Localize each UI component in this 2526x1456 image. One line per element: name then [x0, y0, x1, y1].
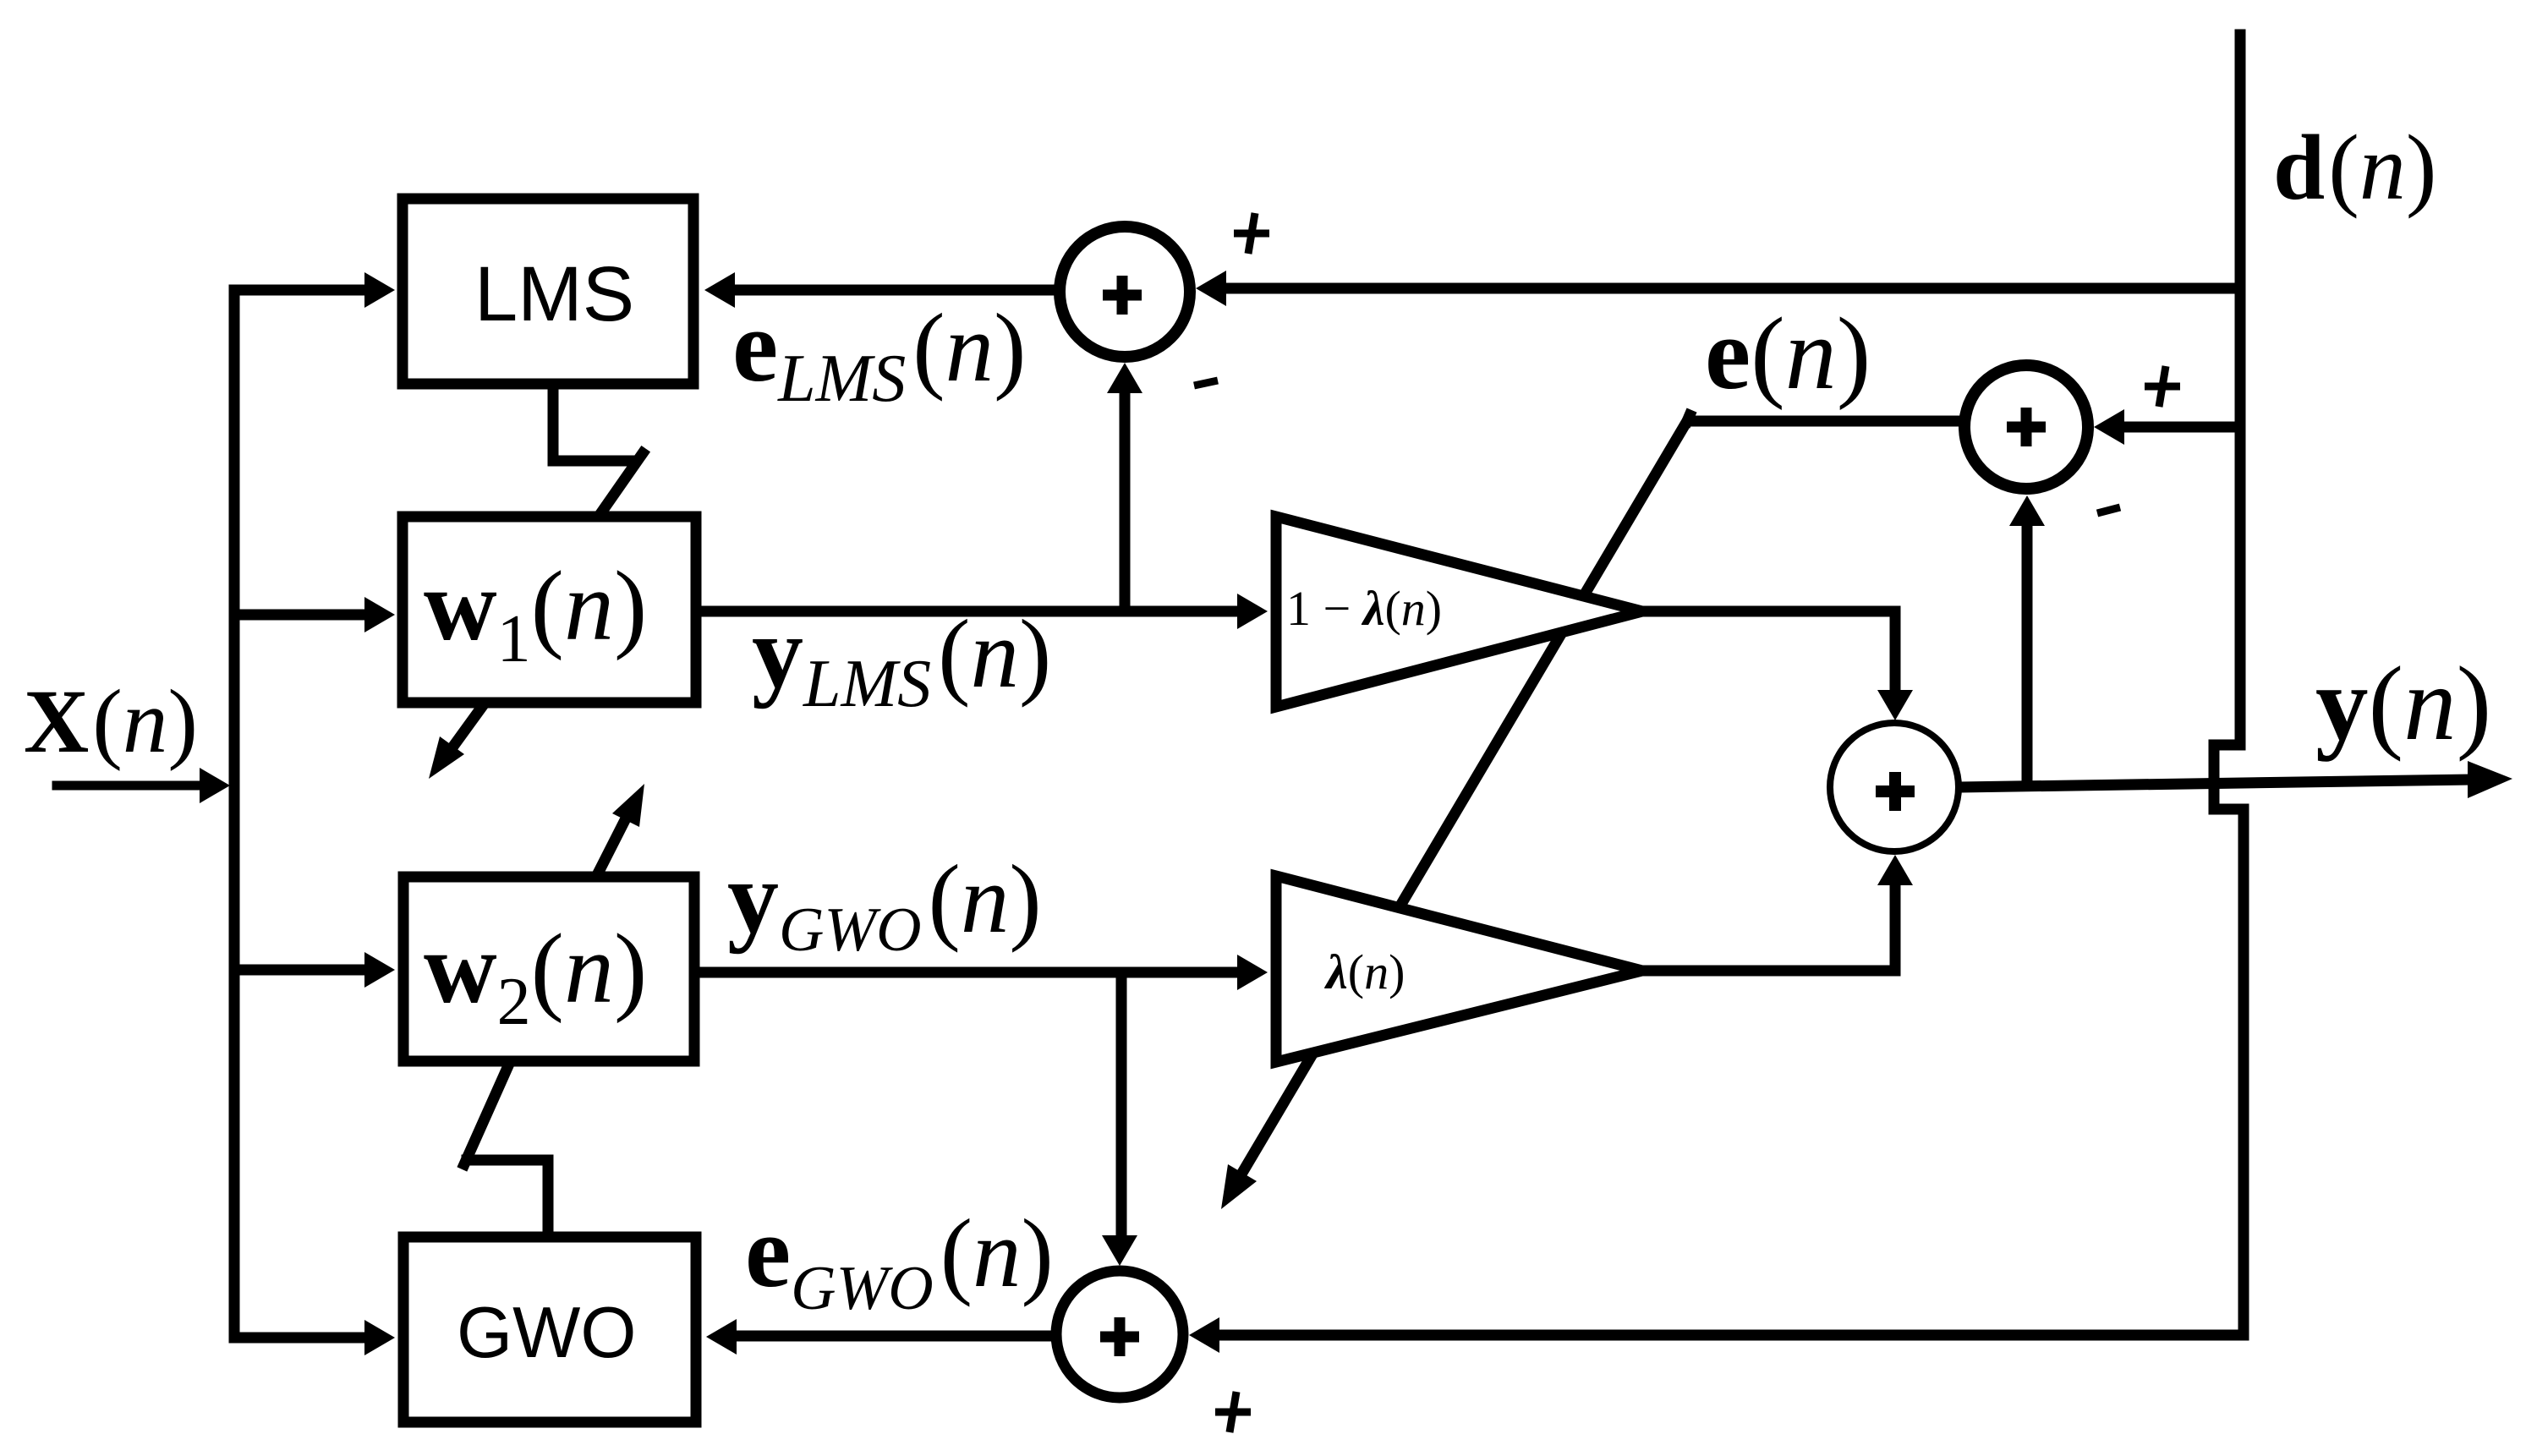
arrowhead into LMS box: [364, 272, 395, 308]
svg-text:1 − λ(n): 1 − λ(n): [1286, 581, 1442, 636]
wire LMS to w1 zigzag: [553, 384, 634, 461]
arrowhead y(n) up into S2: [2009, 495, 2045, 526]
svg-text:λ(n): λ(n): [1324, 944, 1405, 999]
arrowhead d(n) into S4: [1189, 1317, 1219, 1353]
svg-text:w2(n): w2(n): [424, 911, 647, 1039]
wire d(n) vertical with jog over y(n): [1218, 35, 2244, 1335]
sign plus at S1: [1234, 213, 1269, 254]
wire trunk to w1 branch: [234, 610, 365, 621]
wire w1 adaptation arrow shaft: [452, 704, 484, 747]
arrowhead d(n) into S1: [1196, 271, 1226, 306]
svg-text:LMS: LMS: [474, 251, 634, 337]
svg-text:e(n): e(n): [1705, 297, 1871, 411]
arrowhead into w2 box: [364, 952, 395, 988]
box w1: [403, 517, 696, 703]
sign plus at S2: [2145, 366, 2180, 407]
box w2: [403, 877, 694, 1061]
wire y_GWO junction down into S4: [1116, 972, 1127, 1236]
adder S4 (e_GWO): [1056, 1271, 1183, 1398]
amplifier T1 1-lambda: [1276, 517, 1642, 707]
wire T2 output to adder S3: [1641, 884, 1895, 971]
arrowhead e(n) adaptation: [1221, 1164, 1257, 1209]
box LMS: [403, 199, 693, 384]
svg-text:X(n): X(n): [24, 672, 198, 772]
svg-text:GWO: GWO: [457, 1293, 636, 1373]
wire d(n) branch into S2: [2124, 422, 2240, 433]
adder S3 (y(n)): [1830, 723, 1959, 851]
wire y(n) junction up into S2: [2022, 528, 2033, 782]
wire d(n) to adder S1: [1225, 283, 2240, 294]
wire y_LMS from w1 to triangle T1: [702, 606, 1236, 617]
wire y_GWO from w2 to triangle T2: [697, 967, 1236, 978]
arrowhead T2 out into S3 bottom: [1877, 855, 1913, 885]
wire trunk to GWO branch: [234, 1333, 365, 1344]
wire e_GWO from S4 to GWO: [739, 1331, 1059, 1342]
wire e_LMS from adder S1 to LMS: [732, 285, 1060, 296]
svg-text:d(n): d(n): [2273, 116, 2436, 219]
arrowhead into GWO box: [364, 1320, 395, 1355]
sign minus at S1: [1194, 380, 1218, 386]
arrowhead into w1 box: [364, 597, 395, 632]
sign minus at S2: [2097, 507, 2120, 513]
wire input trunk vertical: [229, 290, 240, 1338]
wire trunk to LMS branch: [234, 285, 365, 296]
arrowhead e_GWO into GWO box: [706, 1319, 737, 1355]
box GWO: [403, 1237, 696, 1422]
arrowhead T1 out into S3 top: [1877, 690, 1913, 720]
arrowhead y(n) output: [2468, 761, 2512, 798]
arrowhead y_LMS up into S1: [1107, 363, 1142, 393]
wire y(n) output from S3: [1959, 780, 2473, 787]
adder S2 (e(n)): [1964, 365, 2088, 489]
wire e(n) from S2 with diagonal lambda adaptation: [1242, 421, 1962, 1173]
wire w2 to GWO zigzag: [464, 1062, 510, 1164]
wire T1 output to adder S3: [1641, 611, 1895, 692]
arrowhead y_GWO into T2: [1237, 955, 1268, 990]
wire y_LMS junction up into S1: [1120, 391, 1131, 611]
sign plus at S4: [1215, 1392, 1251, 1432]
svg-text:w1(n): w1(n): [424, 549, 647, 676]
arrowhead y_LMS into T1: [1237, 594, 1268, 629]
arrowhead w1 adaptation: [429, 736, 464, 779]
arrowhead X(n) into trunk: [200, 768, 230, 803]
wire w2 adaptation arrow shaft: [597, 818, 626, 875]
adder S1 (e_LMS): [1060, 227, 1190, 357]
amplifier T2 lambda: [1276, 876, 1642, 1062]
svg-text:y(n): y(n): [2315, 646, 2491, 763]
arrowhead e_LMS into LMS box: [704, 272, 735, 308]
arrowhead d(n) into S2: [2094, 409, 2124, 445]
arrowhead w2 adaptation: [612, 784, 644, 827]
wire X(n) input: [57, 781, 203, 791]
wire trunk to w2 branch: [234, 965, 365, 976]
arrowhead y_GWO down into S4: [1102, 1235, 1137, 1266]
